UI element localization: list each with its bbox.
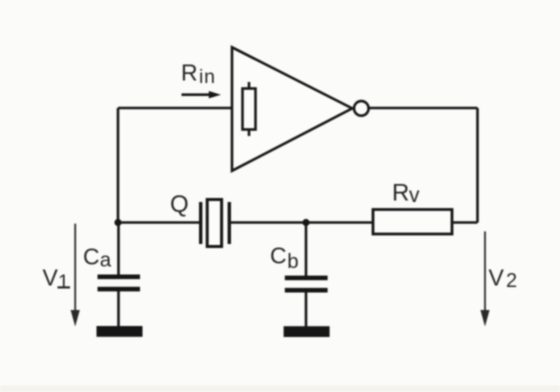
ground for Cb [284,326,330,337]
arrow Rin [182,91,222,98]
wire Rv to right corner [452,221,478,224]
node A junction dot [114,219,121,226]
svg-text:1: 1 [58,271,69,293]
label Cb [270,243,299,274]
inverter output bubble [354,101,369,116]
svg-text:v: v [409,184,420,207]
ground for Ca [97,326,143,337]
node B junction dot [302,219,309,226]
label Ca [83,244,112,272]
inverter U1 triangle [232,47,352,171]
resistor Rin inside inverter [243,82,256,136]
wire right vertical [476,108,479,223]
wire node B to Rv [306,221,373,224]
svg-text:R: R [181,60,198,86]
crystal Q [199,200,231,247]
svg-text:2: 2 [506,270,517,292]
label Rv [392,180,420,208]
wire inverter output [368,107,478,110]
wire node A to crystal [118,221,200,224]
wire crystal to node B [230,221,306,224]
bottom strip [0,386,560,392]
svg-text:a: a [100,249,112,272]
capacitor Ca [98,223,141,328]
svg-text:R: R [392,180,409,207]
resistor Rv [373,210,452,235]
label Rin [181,60,216,89]
svg-text:Q: Q [170,191,189,218]
wire input to inverter [118,107,232,110]
capacitor Cb [285,223,328,328]
svg-text:V: V [43,265,59,291]
arrow V1 [71,224,80,327]
svg-text:C: C [270,243,287,269]
svg-text:C: C [83,244,100,270]
arrow V2 [480,231,489,326]
label V1 [43,265,71,294]
wire left vertical [117,108,120,223]
svg-text:in: in [199,66,216,88]
svg-text:b: b [287,250,298,273]
svg-text:V: V [489,265,505,291]
label V2 [489,265,518,293]
